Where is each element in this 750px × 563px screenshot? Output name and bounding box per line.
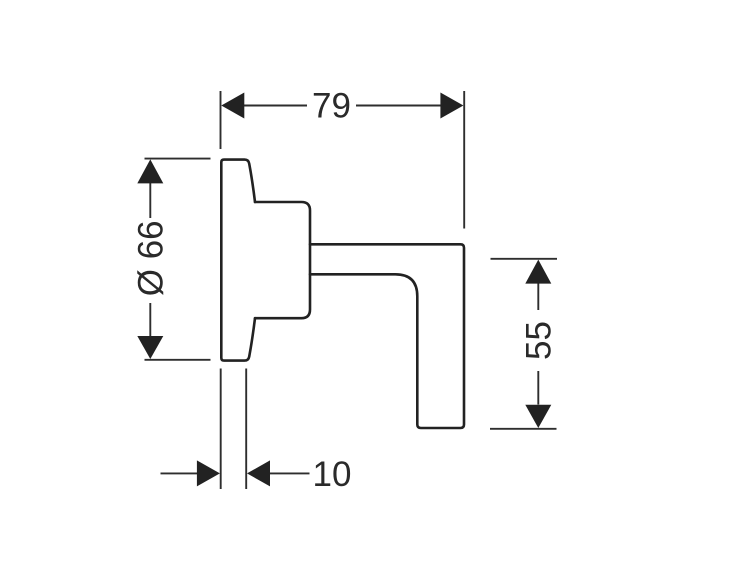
dim line upper segment xyxy=(149,182,151,218)
tick top xyxy=(491,258,558,260)
svg-text:Ø 66: Ø 66 xyxy=(131,220,170,296)
svg-text:10: 10 xyxy=(313,455,352,494)
dim line lower segment xyxy=(537,371,539,405)
svg-text:55: 55 xyxy=(520,321,559,360)
svg-text:79: 79 xyxy=(312,86,351,125)
dimension 79 xyxy=(221,91,465,229)
arrow down xyxy=(525,405,551,428)
handle lever xyxy=(310,244,464,428)
extension line right xyxy=(463,91,465,229)
arrow up xyxy=(137,159,163,183)
arrow pointing right xyxy=(197,460,220,486)
escutcheon profile xyxy=(221,160,255,361)
tick bottom xyxy=(145,359,211,361)
dimension 55 xyxy=(490,259,557,429)
dimension Ø 66 xyxy=(145,159,211,360)
arrow pointing left xyxy=(247,460,270,486)
hub xyxy=(255,202,310,318)
dim line left segment xyxy=(243,105,307,107)
tick top xyxy=(145,158,211,160)
tick bottom xyxy=(490,428,557,430)
arrow down xyxy=(137,336,163,359)
dim line lower segment xyxy=(149,303,151,337)
tail left xyxy=(161,472,200,474)
dim line upper segment xyxy=(537,283,539,311)
arrow left xyxy=(221,93,244,119)
extension line left xyxy=(220,369,222,490)
dimension 10 xyxy=(161,369,310,490)
extension line right xyxy=(245,369,247,490)
extension line left xyxy=(220,91,222,149)
dim line right segment xyxy=(356,105,443,107)
tail right xyxy=(269,472,310,474)
arrow right xyxy=(440,93,463,119)
arrow up xyxy=(525,260,551,284)
